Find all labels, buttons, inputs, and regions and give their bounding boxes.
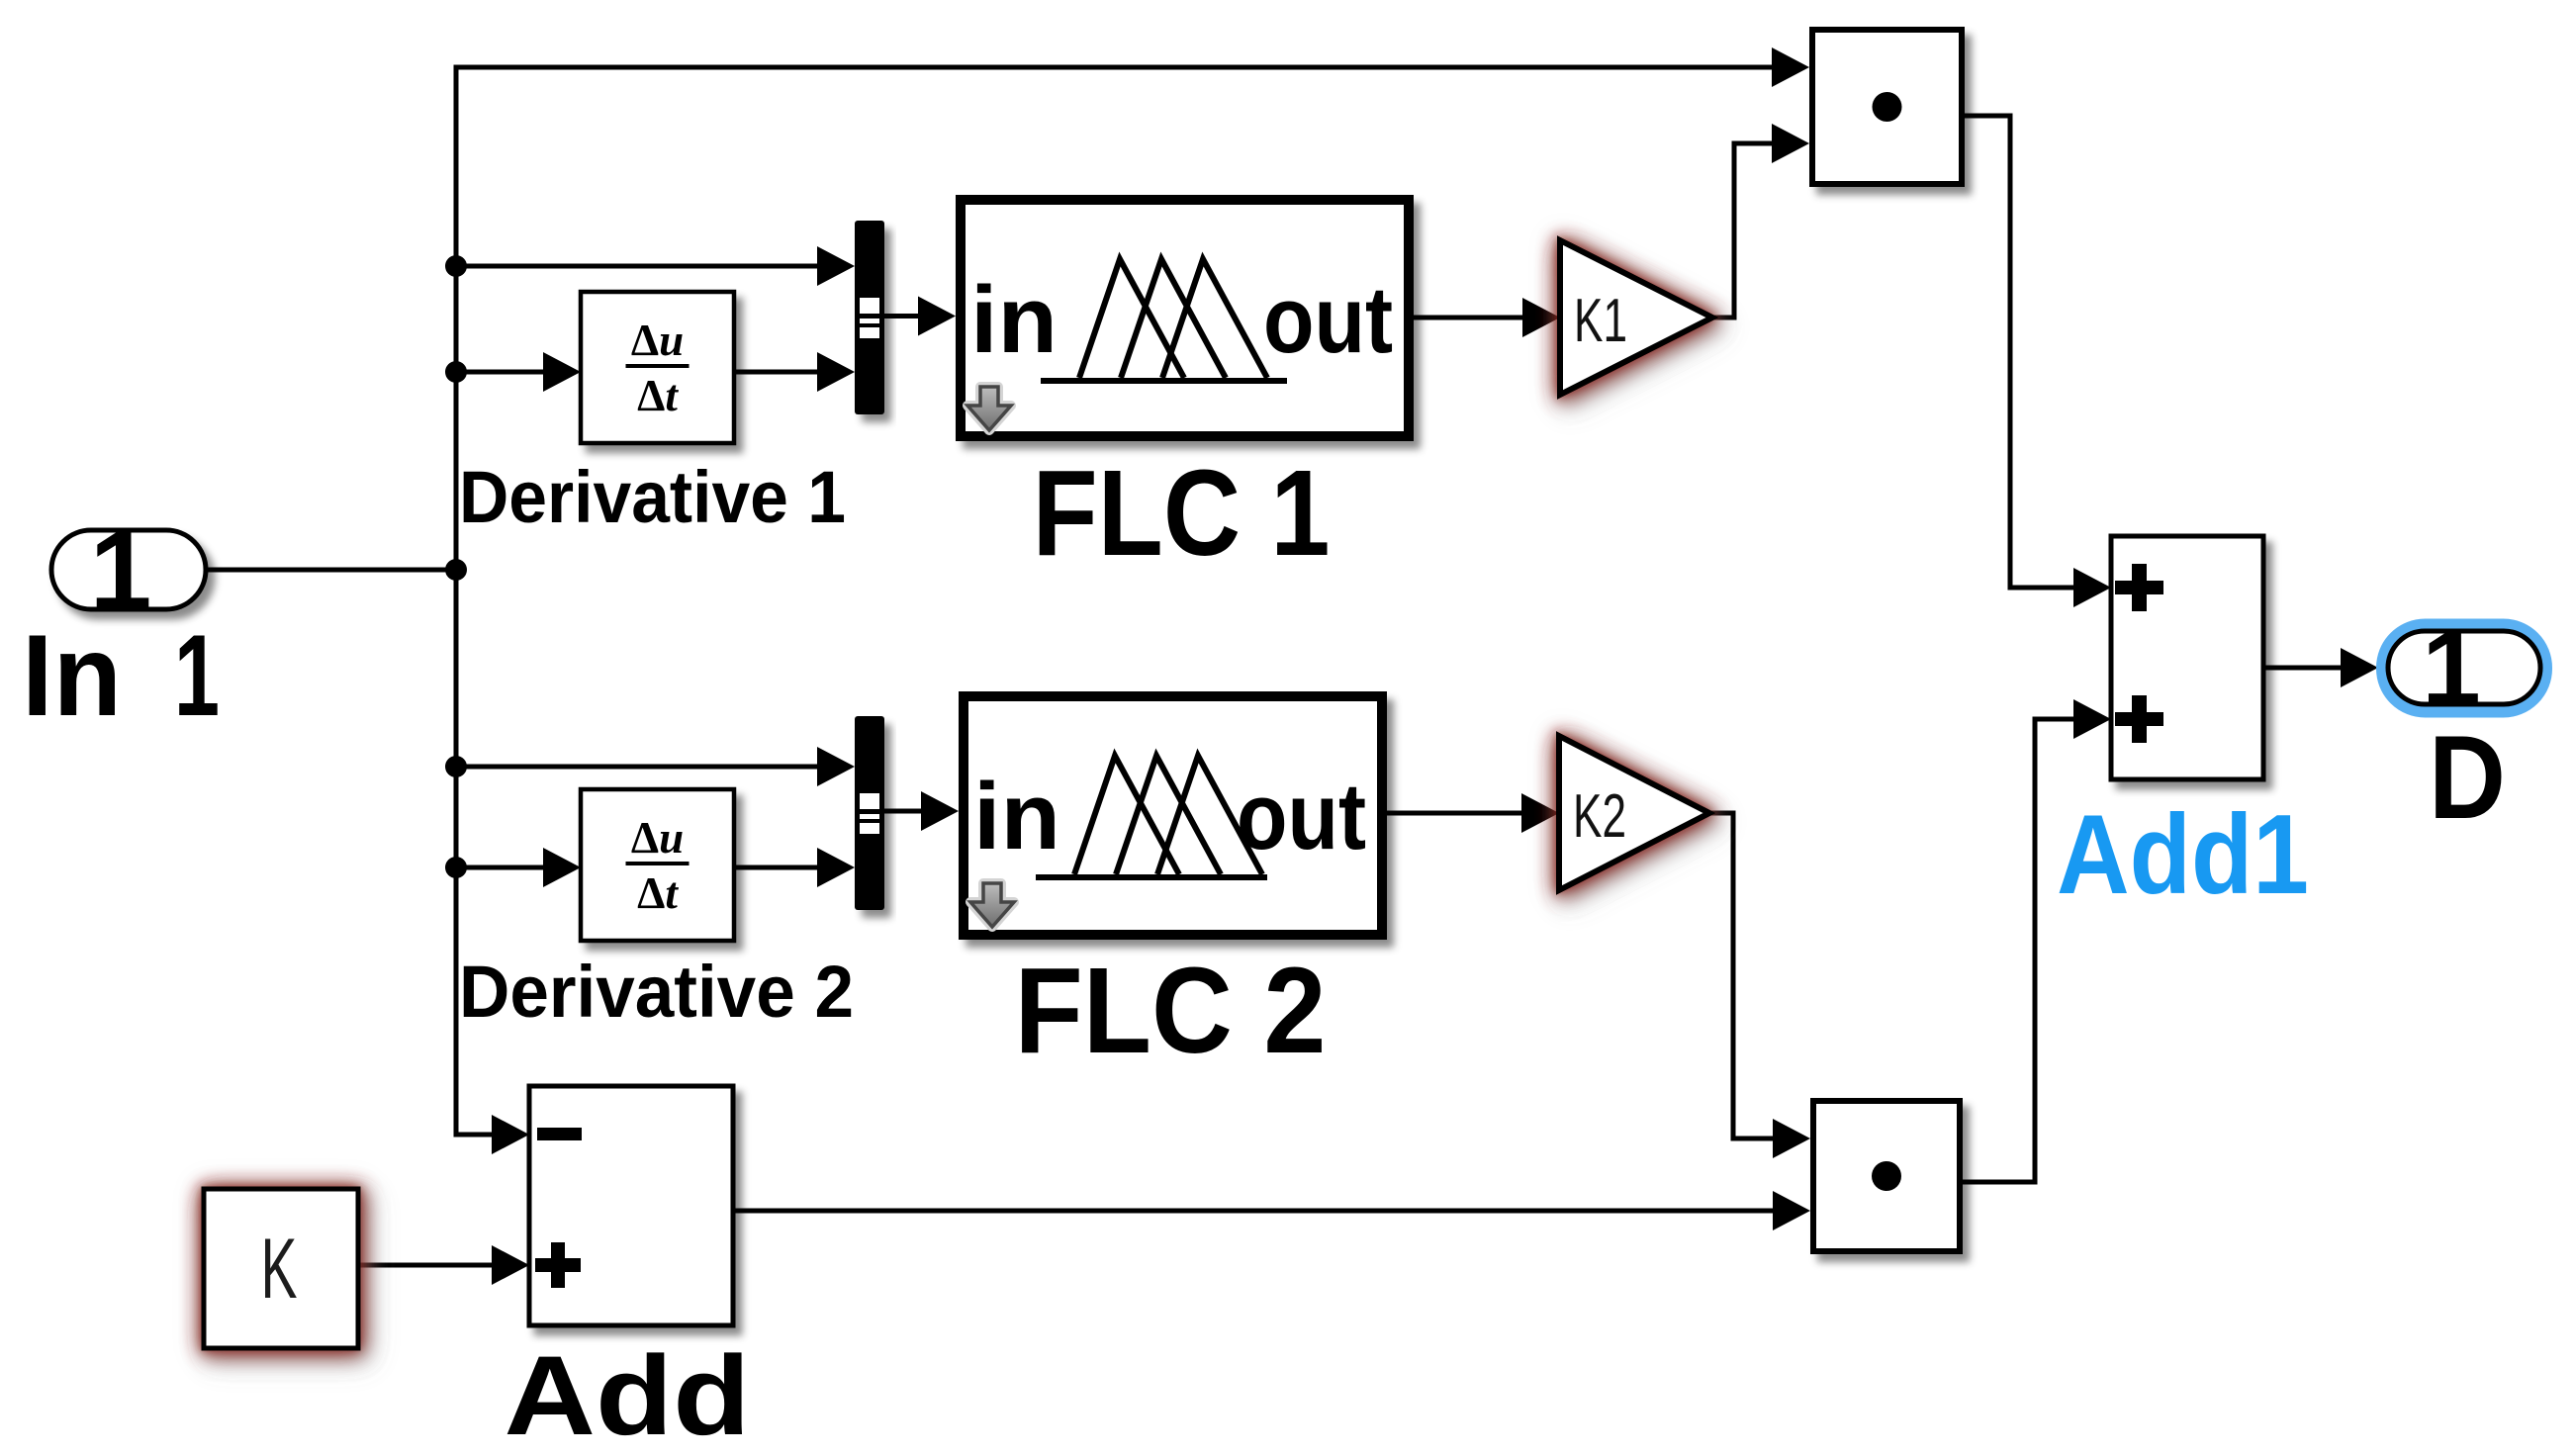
svg-text:Add: Add: [505, 1333, 751, 1456]
svg-text:Derivative 2: Derivative 2: [459, 951, 854, 1033]
svg-text:1: 1: [2422, 608, 2481, 727]
svg-text:Δu: Δu: [631, 813, 684, 863]
svg-text:in: in: [973, 764, 1060, 869]
svg-text:in: in: [970, 267, 1058, 373]
svg-text:Δt: Δt: [637, 868, 679, 918]
svg-text:out: out: [1263, 267, 1393, 373]
svg-text:Δu: Δu: [631, 316, 684, 365]
svg-text:K: K: [261, 1222, 298, 1317]
svg-text:FLC 2: FLC 2: [1015, 944, 1327, 1079]
svg-text:In: In: [22, 610, 122, 740]
svg-text:D: D: [2429, 711, 2506, 844]
svg-text:Add1: Add1: [2057, 792, 2309, 918]
svg-text:1: 1: [174, 610, 220, 740]
svg-text:Δt: Δt: [637, 371, 679, 420]
svg-text:FLC 1: FLC 1: [1033, 446, 1331, 582]
svg-text:K1: K1: [1574, 287, 1627, 355]
svg-text:out: out: [1237, 764, 1366, 869]
svg-text:K2: K2: [1573, 782, 1626, 851]
svg-text:Derivative 1: Derivative 1: [459, 456, 846, 538]
